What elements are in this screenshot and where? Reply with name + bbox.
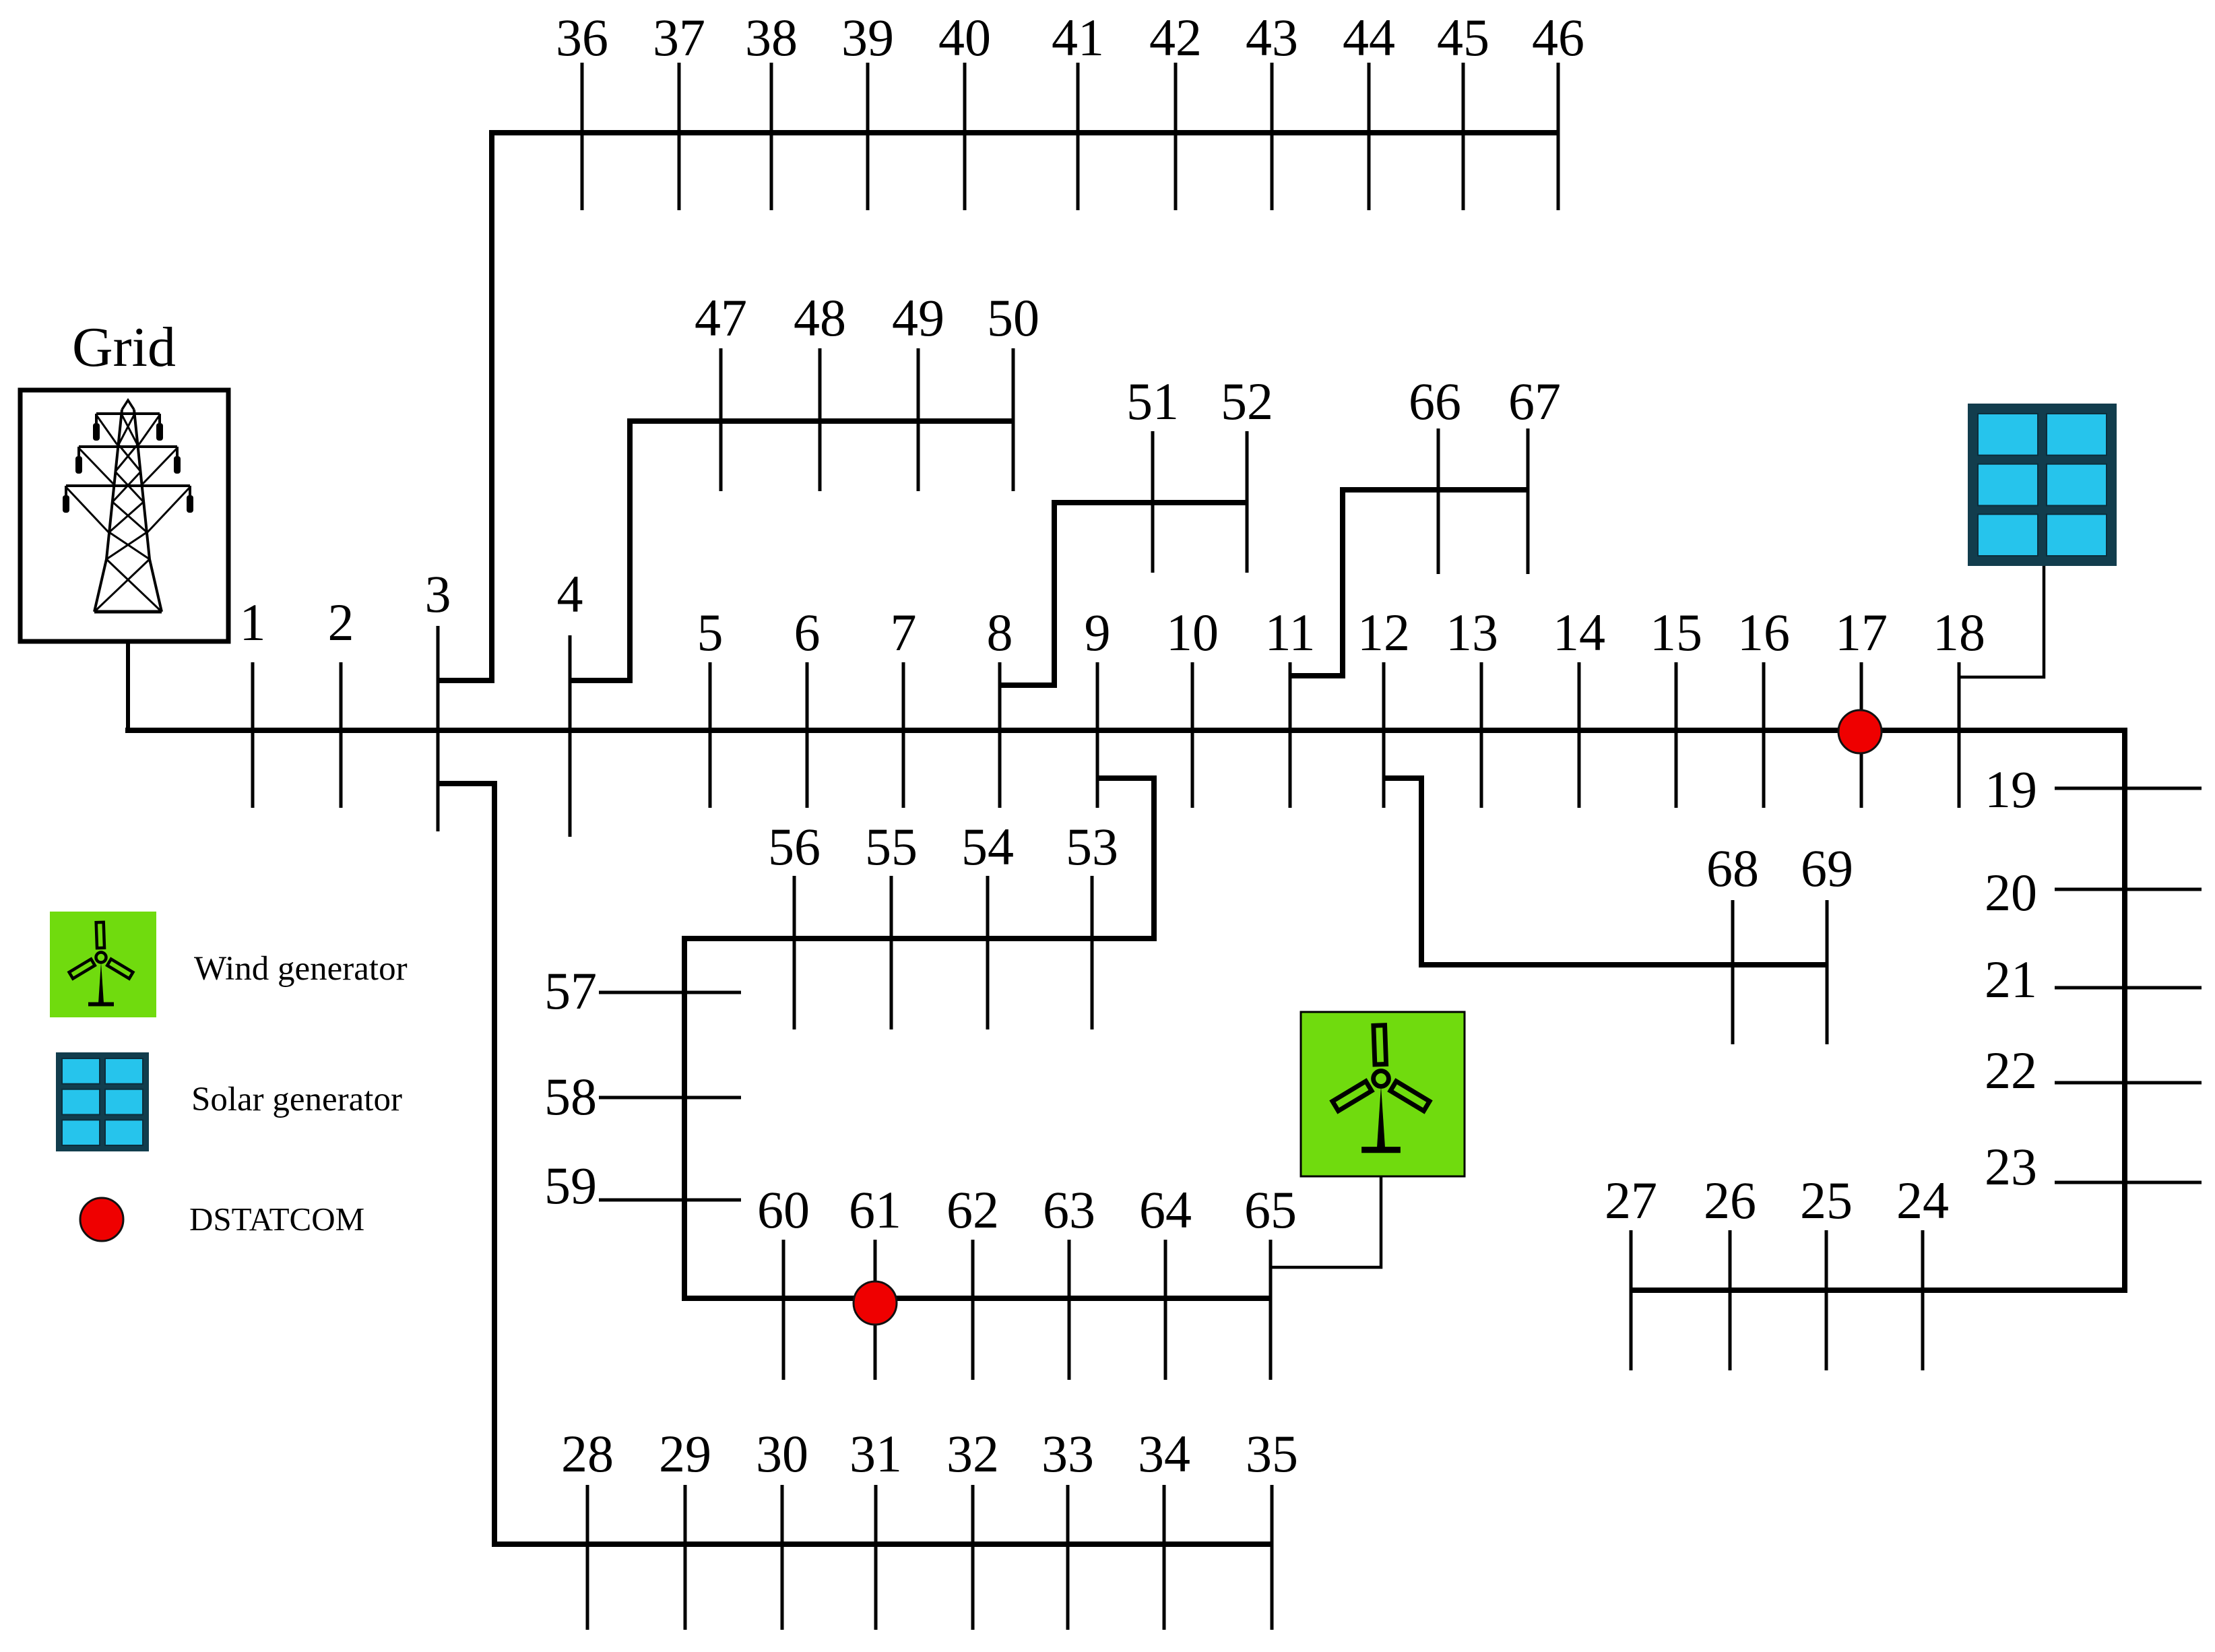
svg-text:35: 35	[1246, 1424, 1298, 1483]
svg-text:30: 30	[756, 1424, 808, 1483]
svg-text:65: 65	[1244, 1180, 1297, 1239]
svg-text:61: 61	[849, 1180, 901, 1239]
svg-text:51: 51	[1126, 372, 1179, 431]
svg-text:44: 44	[1343, 8, 1395, 67]
svg-text:13: 13	[1446, 603, 1498, 662]
svg-text:49: 49	[892, 288, 944, 347]
svg-text:69: 69	[1801, 839, 1853, 897]
svg-text:64: 64	[1139, 1180, 1192, 1239]
svg-text:Wind generator: Wind generator	[194, 950, 408, 988]
svg-text:50: 50	[987, 288, 1039, 347]
svg-text:66: 66	[1409, 372, 1461, 431]
svg-text:14: 14	[1553, 603, 1605, 662]
svg-text:Solar generator: Solar generator	[191, 1081, 402, 1118]
svg-text:54: 54	[961, 817, 1014, 876]
svg-text:53: 53	[1066, 817, 1118, 876]
svg-text:20: 20	[1985, 863, 2037, 922]
svg-text:9: 9	[1085, 603, 1111, 662]
svg-text:23: 23	[1985, 1137, 2037, 1196]
svg-text:40: 40	[938, 8, 991, 67]
svg-text:42: 42	[1149, 8, 1202, 67]
svg-text:11: 11	[1264, 603, 1315, 662]
svg-text:18: 18	[1933, 603, 1985, 662]
svg-text:36: 36	[556, 8, 608, 67]
svg-text:55: 55	[865, 817, 918, 876]
svg-text:45: 45	[1437, 8, 1489, 67]
svg-text:59: 59	[544, 1156, 597, 1215]
svg-text:33: 33	[1041, 1424, 1094, 1483]
svg-text:27: 27	[1605, 1171, 1657, 1230]
svg-text:19: 19	[1985, 760, 2037, 819]
svg-text:2: 2	[328, 593, 354, 652]
svg-text:38: 38	[745, 8, 798, 67]
svg-text:DSTATCOM: DSTATCOM	[189, 1201, 364, 1238]
svg-text:63: 63	[1043, 1180, 1095, 1239]
svg-text:6: 6	[794, 603, 821, 662]
svg-text:39: 39	[841, 8, 894, 67]
svg-text:32: 32	[946, 1424, 999, 1483]
svg-text:57: 57	[544, 961, 597, 1020]
svg-text:1: 1	[240, 593, 266, 652]
svg-text:Grid: Grid	[72, 316, 176, 379]
svg-text:52: 52	[1221, 372, 1273, 431]
svg-text:37: 37	[653, 8, 705, 67]
svg-text:41: 41	[1052, 8, 1104, 67]
svg-text:60: 60	[757, 1180, 810, 1239]
svg-text:21: 21	[1985, 950, 2037, 1009]
svg-text:47: 47	[695, 288, 747, 347]
svg-text:10: 10	[1166, 603, 1219, 662]
svg-text:15: 15	[1650, 603, 1702, 662]
svg-text:24: 24	[1896, 1171, 1949, 1230]
svg-text:56: 56	[768, 817, 821, 876]
svg-text:29: 29	[659, 1424, 711, 1483]
svg-text:17: 17	[1835, 603, 1888, 662]
svg-text:31: 31	[849, 1424, 902, 1483]
svg-text:16: 16	[1737, 603, 1790, 662]
svg-text:67: 67	[1508, 372, 1561, 431]
svg-text:4: 4	[557, 565, 583, 623]
svg-text:3: 3	[425, 565, 451, 623]
svg-text:22: 22	[1985, 1041, 2037, 1100]
svg-text:43: 43	[1246, 8, 1298, 67]
svg-text:34: 34	[1138, 1424, 1190, 1483]
svg-text:46: 46	[1532, 8, 1584, 67]
svg-text:8: 8	[987, 603, 1013, 662]
svg-text:62: 62	[946, 1180, 999, 1239]
svg-text:48: 48	[794, 288, 846, 347]
svg-text:12: 12	[1357, 603, 1410, 662]
svg-text:5: 5	[697, 603, 724, 662]
svg-text:25: 25	[1800, 1171, 1853, 1230]
svg-text:7: 7	[891, 603, 917, 662]
svg-text:68: 68	[1706, 839, 1759, 897]
svg-text:58: 58	[544, 1067, 597, 1126]
svg-text:28: 28	[561, 1424, 614, 1483]
svg-text:26: 26	[1704, 1171, 1756, 1230]
